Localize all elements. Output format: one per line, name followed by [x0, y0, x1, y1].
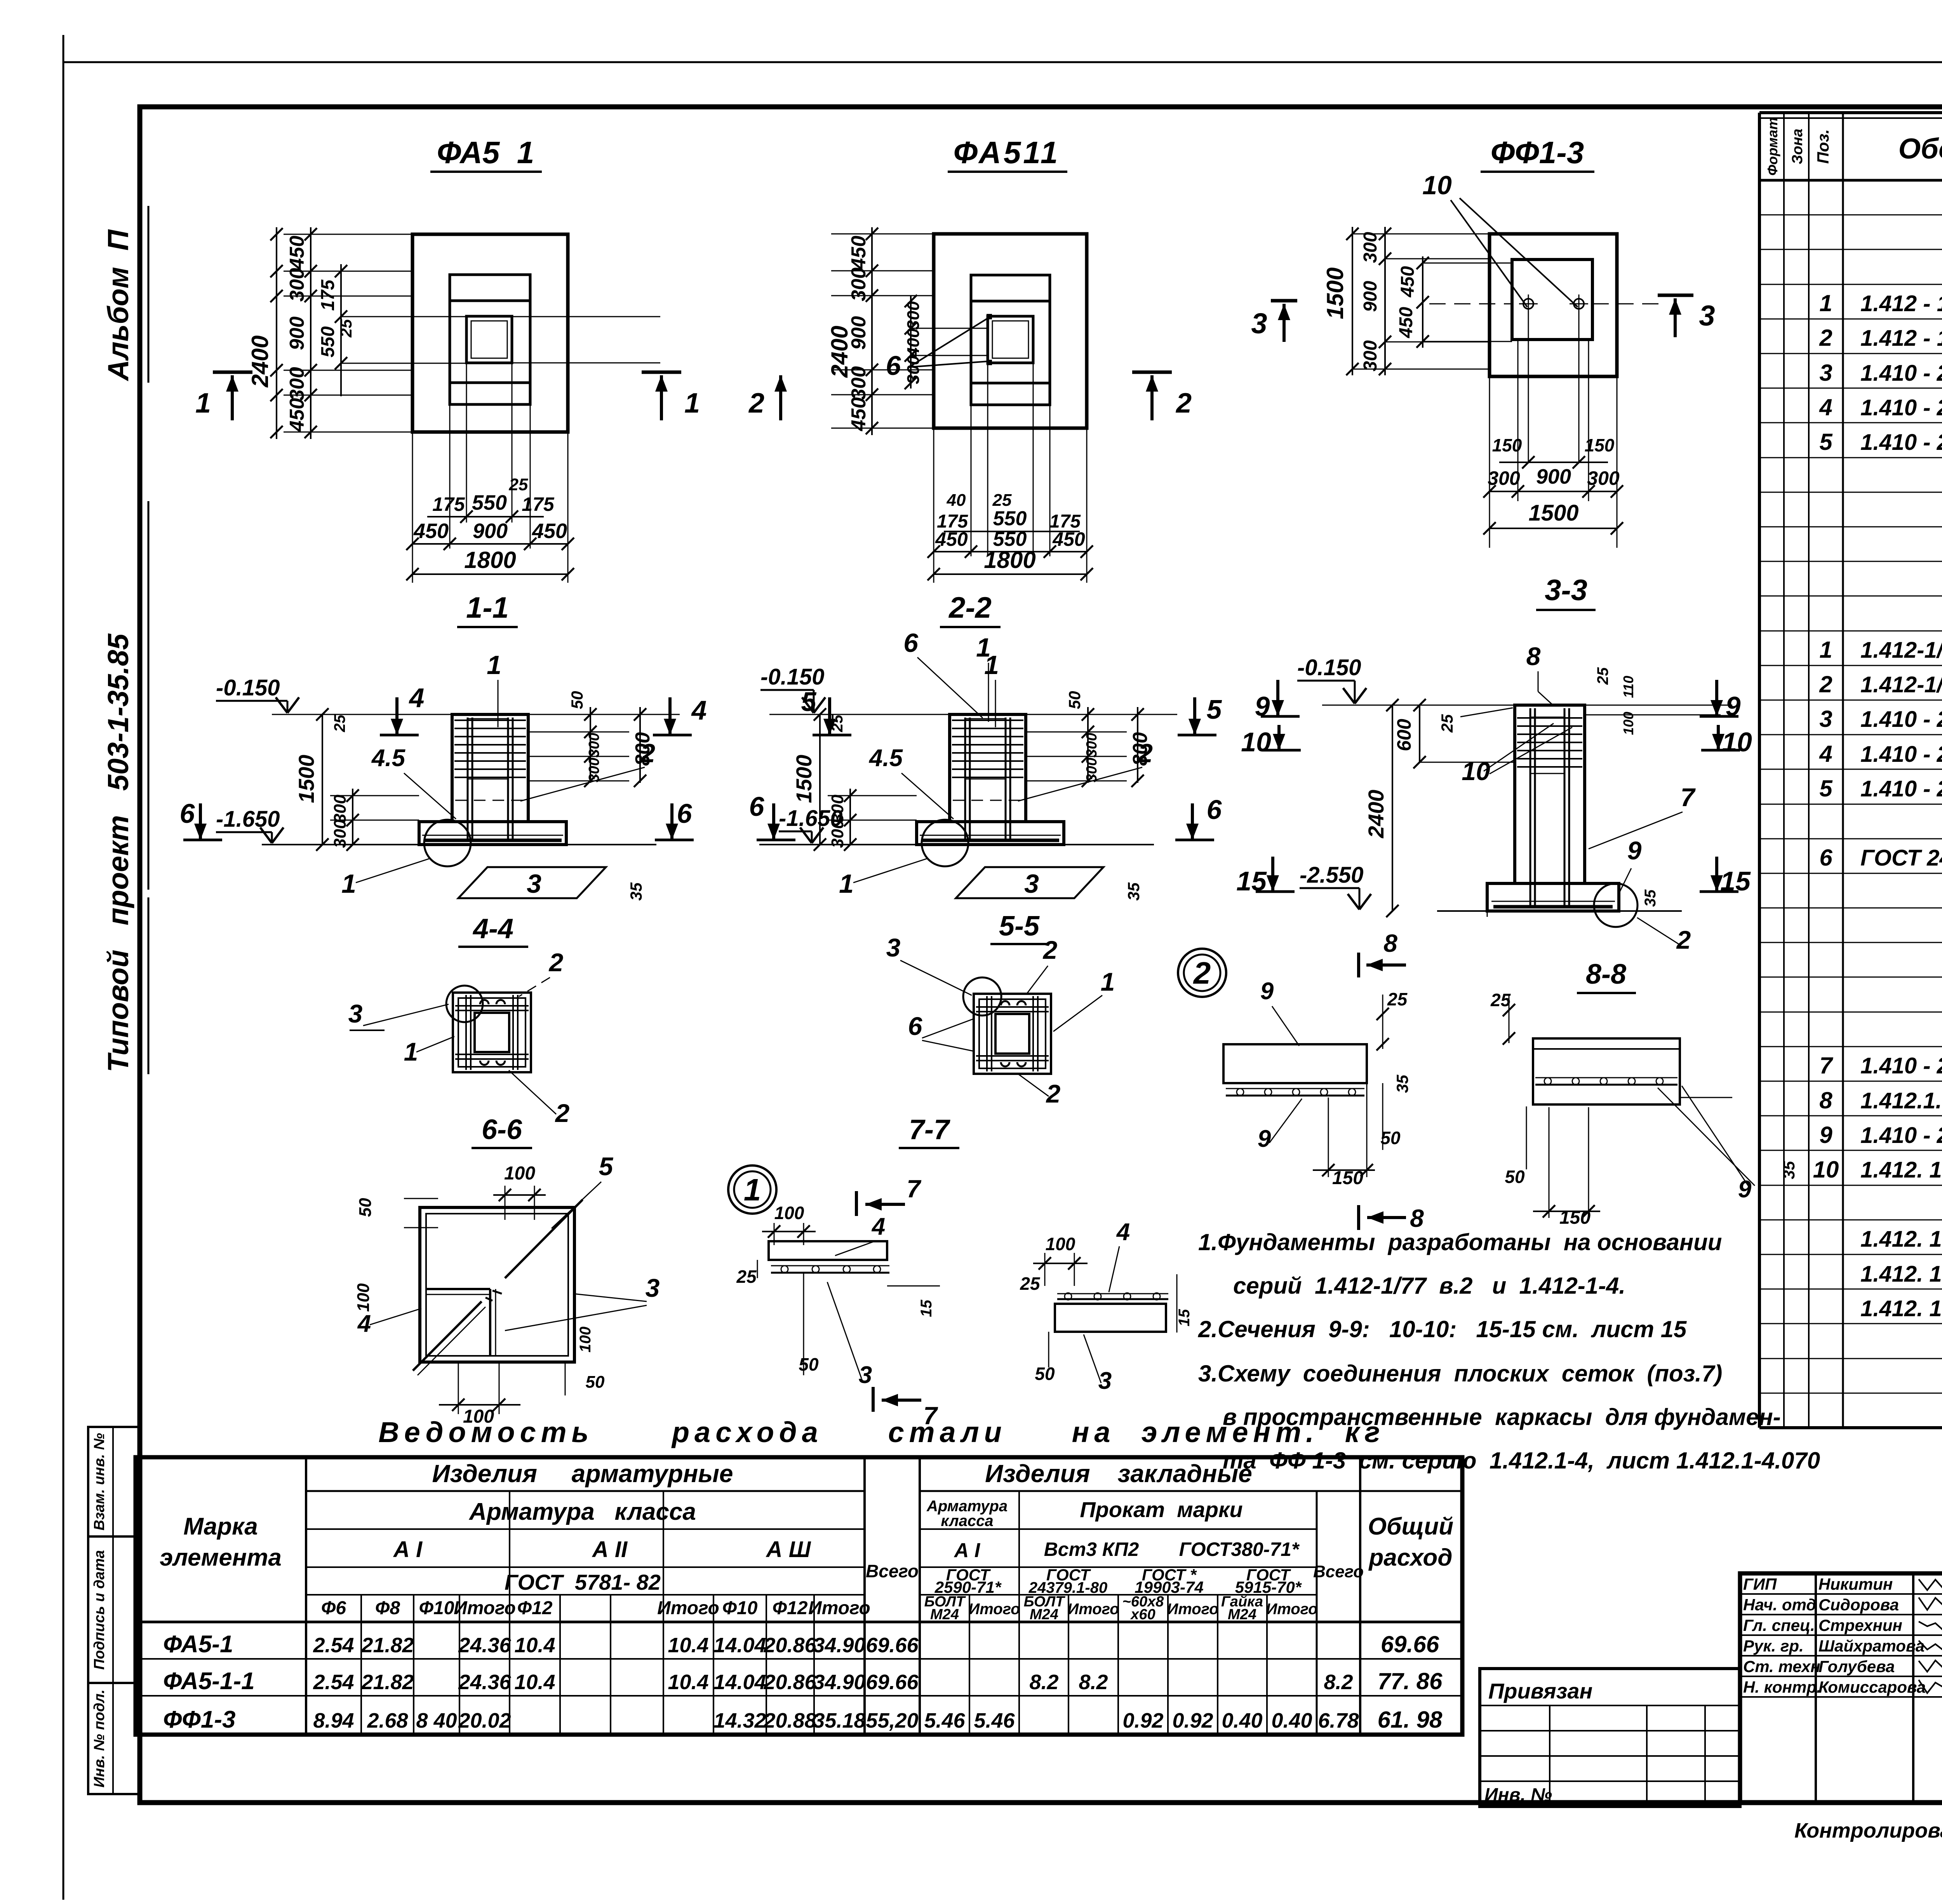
- svg-text:1500: 1500: [294, 755, 318, 803]
- svg-text:9: 9: [1258, 1125, 1271, 1152]
- svg-text:50: 50: [1380, 1128, 1401, 1148]
- svg-text:2: 2: [748, 388, 764, 419]
- svg-text:7: 7: [907, 1175, 922, 1203]
- svg-text:15: 15: [1720, 866, 1751, 896]
- svg-text:8: 8: [1819, 1087, 1832, 1113]
- svg-text:6-6: 6-6: [482, 1114, 522, 1145]
- svg-text:8: 8: [1410, 1204, 1424, 1232]
- svg-text:2400: 2400: [247, 335, 273, 387]
- svg-text:3: 3: [527, 869, 541, 899]
- svg-text:9: 9: [1819, 1122, 1832, 1148]
- svg-text:0.92: 0.92: [1122, 1709, 1163, 1732]
- svg-text:2: 2: [548, 948, 564, 977]
- svg-text:4-4: 4-4: [472, 913, 513, 944]
- svg-text:7: 7: [1681, 783, 1696, 812]
- svg-text:8: 8: [1383, 929, 1397, 957]
- svg-text:1.412. 1 - 4. 080: 1.412. 1 - 4. 080: [1860, 1226, 1942, 1252]
- svg-text:69.66: 69.66: [1381, 1631, 1439, 1657]
- svg-text:Гл. спец.: Гл. спец.: [1743, 1616, 1815, 1634]
- svg-text:50: 50: [1065, 691, 1084, 709]
- svg-text:Итого: Итого: [1167, 1601, 1218, 1618]
- svg-text:2400: 2400: [1364, 790, 1388, 839]
- svg-text:100: 100: [1620, 712, 1636, 735]
- svg-text:2.Сечения 9-9: 10-10: 15-: 2.Сечения 9-9: 10-10: 15-15 см. лист 15: [1198, 1316, 1687, 1342]
- svg-text:2.54: 2.54: [313, 1634, 354, 1657]
- svg-text:900: 900: [847, 316, 870, 350]
- svg-text:4: 4: [871, 1213, 885, 1240]
- svg-text:6.78: 6.78: [1318, 1709, 1359, 1732]
- svg-text:300: 300: [1084, 758, 1100, 782]
- svg-text:Итого: Итого: [657, 1598, 719, 1618]
- svg-text:1-1: 1-1: [466, 591, 509, 624]
- svg-text:Всего: Всего: [1313, 1562, 1364, 1581]
- svg-text:550: 550: [993, 507, 1027, 530]
- svg-text:0.40: 0.40: [1271, 1709, 1312, 1732]
- svg-text:Вст3 КП2: Вст3 КП2: [1044, 1538, 1139, 1560]
- svg-text:1: 1: [195, 388, 211, 419]
- svg-text:100: 100: [577, 1327, 594, 1353]
- svg-text:Изделия арматурные: Изделия арматурные: [432, 1460, 733, 1488]
- svg-text:Арматура класса: Арматура класса: [468, 1498, 696, 1525]
- svg-text:ГОСТ380-71*: ГОСТ380-71*: [1179, 1538, 1300, 1560]
- svg-text:20.86: 20.86: [763, 1634, 816, 1657]
- svg-text:8 40: 8 40: [416, 1709, 457, 1732]
- svg-text:3: 3: [886, 933, 901, 962]
- svg-text:8: 8: [1526, 642, 1541, 671]
- svg-text:35: 35: [1780, 1161, 1798, 1179]
- svg-text:М24: М24: [1030, 1606, 1058, 1623]
- svg-text:-0.150: -0.150: [1297, 655, 1361, 680]
- svg-text:25: 25: [509, 475, 528, 494]
- svg-text:1.410 - 2 вып.1 Л.62: 1.410 - 2 вып.1 Л.62: [1860, 742, 1942, 767]
- svg-text:35: 35: [1393, 1075, 1411, 1093]
- svg-text:2: 2: [640, 739, 655, 768]
- svg-text:9: 9: [1260, 978, 1274, 1005]
- svg-text:4: 4: [691, 695, 707, 725]
- svg-text:Поз.: Поз.: [1814, 129, 1832, 164]
- svg-text:50: 50: [799, 1354, 819, 1374]
- svg-text:1.412-1/77 вып.3 Л.5: 1.412-1/77 вып.3 Л.5: [1860, 638, 1942, 663]
- svg-text:300: 300: [1360, 340, 1381, 371]
- svg-text:4.5: 4.5: [371, 745, 406, 772]
- svg-text:450: 450: [847, 236, 870, 270]
- svg-text:300: 300: [847, 366, 870, 400]
- svg-text:600: 600: [1393, 719, 1415, 751]
- svg-text:10.4: 10.4: [668, 1671, 708, 1694]
- svg-text:1.412.1.- 4.050: 1.412.1.- 4.050: [1860, 1088, 1942, 1113]
- svg-text:150: 150: [1585, 435, 1615, 455]
- svg-text:10: 10: [1422, 171, 1452, 200]
- svg-text:1.412. 1 - 4. 060: 1.412. 1 - 4. 060: [1860, 1157, 1942, 1183]
- svg-text:25: 25: [1438, 714, 1456, 733]
- svg-text:7-7: 7-7: [909, 1114, 950, 1145]
- svg-text:175: 175: [318, 279, 338, 311]
- svg-text:2: 2: [1193, 956, 1211, 990]
- svg-text:серий 1.412-1/77 в.2 и 1.: серий 1.412-1/77 в.2 и 1.412-1-4.: [1233, 1273, 1625, 1299]
- svg-text:1: 1: [976, 633, 991, 662]
- svg-text:35: 35: [1642, 889, 1659, 907]
- svg-text:50: 50: [1505, 1167, 1525, 1187]
- svg-text:2: 2: [1819, 671, 1832, 697]
- svg-text:Ф10: Ф10: [722, 1598, 758, 1618]
- svg-text:1.410 - 2 вып.1 Л.4: 1.410 - 2 вып.1 Л.4: [1860, 707, 1942, 732]
- svg-text:1.410 - 2 вып.1 Л2: 1.410 - 2 вып.1 Л2: [1860, 430, 1942, 455]
- svg-text:450: 450: [935, 528, 968, 550]
- svg-text:9: 9: [1726, 691, 1741, 721]
- svg-text:14.04: 14.04: [713, 1634, 766, 1657]
- svg-text:3.Схему соединения плоских: 3.Схему соединения плоских сеток (поз.7): [1198, 1360, 1722, 1387]
- svg-text:300: 300: [286, 367, 308, 401]
- svg-text:100: 100: [354, 1283, 373, 1312]
- svg-text:М24: М24: [1228, 1606, 1256, 1623]
- svg-text:Итого: Итого: [808, 1598, 870, 1618]
- svg-text:Взам. инв. №: Взам. инв. №: [91, 1433, 108, 1531]
- svg-text:3: 3: [1819, 706, 1832, 732]
- svg-text:24.36: 24.36: [458, 1671, 511, 1694]
- svg-text:1.410 - 2 вып.1: 1.410 - 2 вып.1: [1860, 1123, 1942, 1148]
- svg-text:Ф10: Ф10: [419, 1598, 454, 1618]
- svg-text:2: 2: [1042, 935, 1058, 964]
- svg-text:300: 300: [331, 819, 350, 848]
- svg-text:50: 50: [356, 1198, 375, 1217]
- svg-text:25: 25: [992, 491, 1012, 510]
- svg-text:450: 450: [1052, 528, 1085, 550]
- svg-text:5: 5: [1819, 429, 1833, 455]
- svg-text:550: 550: [472, 491, 507, 514]
- svg-text:300: 300: [904, 301, 923, 330]
- svg-text:8.2: 8.2: [1079, 1671, 1108, 1694]
- svg-text:элемента: элемента: [160, 1544, 282, 1571]
- svg-text:1.412 - 1177 вып.3 Л19: 1.412 - 1177 вып.3 Л19: [1860, 326, 1942, 351]
- svg-text:34.90: 34.90: [813, 1671, 865, 1694]
- svg-text:10.4: 10.4: [514, 1671, 555, 1694]
- svg-text:1: 1: [487, 650, 501, 680]
- svg-text:450: 450: [413, 519, 449, 543]
- svg-text:Голубева: Голубева: [1818, 1657, 1895, 1676]
- svg-text:1500: 1500: [792, 755, 816, 803]
- svg-text:Рук. гр.: Рук. гр.: [1743, 1637, 1804, 1655]
- svg-text:10.4: 10.4: [514, 1634, 555, 1657]
- svg-text:14.32: 14.32: [713, 1709, 766, 1732]
- svg-text:1.410 - 2 вып.1 Л4: 1.410 - 2 вып.1 Л4: [1860, 361, 1942, 386]
- svg-text:Всего: Всего: [866, 1561, 919, 1581]
- svg-text:9: 9: [1627, 836, 1642, 865]
- svg-text:5: 5: [1819, 775, 1833, 801]
- svg-text:25: 25: [331, 714, 348, 732]
- svg-text:25: 25: [1594, 667, 1611, 685]
- svg-text:1.412. 1 - 4. 080 - 01: 1.412. 1 - 4. 080 - 01: [1860, 1261, 1942, 1287]
- svg-text:15: 15: [1176, 1309, 1193, 1326]
- svg-text:8-8: 8-8: [1586, 959, 1626, 990]
- svg-text:150: 150: [1559, 1207, 1590, 1228]
- svg-text:69.66: 69.66: [866, 1671, 919, 1694]
- svg-text:10: 10: [1241, 727, 1271, 757]
- svg-text:Ф12: Ф12: [773, 1598, 808, 1618]
- svg-text:300: 300: [828, 794, 847, 823]
- svg-text:5.46: 5.46: [974, 1709, 1015, 1732]
- svg-text:450: 450: [286, 398, 308, 432]
- svg-text:100: 100: [1046, 1234, 1075, 1254]
- svg-text:ФА511: ФА511: [954, 135, 1060, 170]
- svg-text:1.410 - 2 вып. 1: 1.410 - 2 вып. 1: [1860, 1053, 1942, 1078]
- svg-text:1.412. 1 - 4.080 - 02: 1.412. 1 - 4.080 - 02: [1860, 1296, 1942, 1321]
- svg-text:М24: М24: [930, 1606, 959, 1623]
- svg-text:900: 900: [1360, 281, 1381, 312]
- svg-text:300: 300: [286, 268, 308, 302]
- svg-text:А I: А I: [393, 1537, 423, 1562]
- svg-text:х60: х60: [1130, 1606, 1155, 1623]
- svg-text:6: 6: [1819, 845, 1832, 871]
- svg-text:77. 86: 77. 86: [1378, 1668, 1443, 1694]
- svg-text:900: 900: [286, 317, 308, 350]
- svg-text:3-3: 3-3: [1545, 574, 1587, 607]
- svg-text:6: 6: [886, 350, 901, 381]
- svg-text:Прокат марки: Прокат марки: [1080, 1497, 1242, 1522]
- svg-text:10.4: 10.4: [668, 1634, 708, 1657]
- svg-text:20.88: 20.88: [763, 1709, 816, 1732]
- svg-text:35.18: 35.18: [813, 1709, 865, 1732]
- svg-text:6: 6: [908, 1012, 923, 1040]
- svg-text:450: 450: [1396, 307, 1416, 338]
- svg-text:35: 35: [627, 882, 645, 901]
- svg-text:1: 1: [744, 1172, 761, 1207]
- svg-text:-2.550: -2.550: [1300, 862, 1363, 888]
- svg-text:6: 6: [677, 798, 693, 829]
- svg-text:2: 2: [1676, 925, 1691, 954]
- svg-text:450: 450: [286, 236, 308, 270]
- svg-text:5: 5: [599, 1152, 614, 1181]
- svg-text:расход: расход: [1368, 1544, 1452, 1571]
- svg-text:А II: А II: [592, 1537, 628, 1562]
- svg-text:100: 100: [774, 1203, 804, 1223]
- svg-text:5: 5: [1207, 694, 1222, 725]
- svg-text:Итого: Итого: [1067, 1601, 1119, 1618]
- svg-text:25: 25: [1490, 990, 1511, 1010]
- svg-text:7: 7: [1819, 1052, 1833, 1078]
- svg-text:4: 4: [357, 1310, 371, 1337]
- svg-text:Ф12: Ф12: [517, 1598, 553, 1618]
- svg-text:8.94: 8.94: [313, 1709, 354, 1732]
- svg-text:35: 35: [1124, 882, 1143, 901]
- svg-text:Стрехнин: Стрехнин: [1818, 1616, 1902, 1634]
- svg-text:8.2: 8.2: [1324, 1671, 1353, 1694]
- svg-text:1800: 1800: [464, 547, 516, 573]
- svg-text:50: 50: [568, 691, 586, 709]
- svg-text:Н. контр.: Н. контр.: [1743, 1678, 1821, 1696]
- svg-text:300: 300: [1084, 733, 1100, 757]
- svg-text:0.40: 0.40: [1222, 1709, 1262, 1732]
- svg-text:Зона: Зона: [1789, 129, 1806, 164]
- svg-text:4: 4: [1116, 1219, 1130, 1246]
- svg-text:ГИП: ГИП: [1743, 1575, 1777, 1593]
- svg-text:1: 1: [1819, 290, 1832, 316]
- svg-text:25: 25: [736, 1266, 757, 1287]
- svg-text:900: 900: [473, 519, 508, 543]
- svg-text:300: 300: [331, 794, 350, 823]
- svg-text:1.410 - 2 вып.1 Л.62: 1.410 - 2 вып.1 Л.62: [1860, 776, 1942, 801]
- svg-text:4: 4: [1819, 394, 1832, 420]
- svg-text:25: 25: [337, 319, 355, 338]
- svg-text:Изделия закладные: Изделия закладные: [985, 1460, 1252, 1488]
- svg-text:6: 6: [1207, 794, 1222, 825]
- svg-text:ФА5-1-1: ФА5-1-1: [163, 1668, 255, 1695]
- svg-text:110: 110: [1620, 676, 1636, 698]
- svg-text:Сидорова: Сидорова: [1818, 1596, 1899, 1614]
- svg-text:ФА5 1: ФА5 1: [437, 135, 534, 170]
- svg-text:Формат: Формат: [1765, 117, 1780, 176]
- svg-text:Никитин: Никитин: [1818, 1575, 1893, 1593]
- svg-text:1.412-1/77 вып.3 Л.19: 1.412-1/77 вып.3 Л.19: [1860, 672, 1942, 697]
- svg-text:300: 300: [904, 355, 923, 384]
- svg-text:Итого: Итого: [1266, 1601, 1317, 1618]
- svg-text:34.90: 34.90: [813, 1634, 865, 1657]
- svg-text:55,20: 55,20: [866, 1709, 918, 1732]
- svg-text:2.54: 2.54: [313, 1671, 354, 1694]
- svg-text:Комиссарова: Комиссарова: [1818, 1678, 1926, 1696]
- svg-text:5-5: 5-5: [999, 911, 1040, 942]
- svg-text:Марка: Марка: [183, 1513, 258, 1540]
- svg-text:6: 6: [903, 628, 919, 658]
- svg-text:1: 1: [839, 869, 854, 899]
- svg-text:3: 3: [1699, 300, 1715, 332]
- svg-text:3: 3: [1251, 307, 1267, 340]
- svg-text:300: 300: [586, 758, 602, 782]
- svg-text:61. 98: 61. 98: [1378, 1707, 1443, 1733]
- svg-text:3: 3: [348, 999, 363, 1028]
- svg-text:150: 150: [1492, 435, 1522, 455]
- svg-text:4.5: 4.5: [868, 745, 903, 772]
- svg-text:1: 1: [1101, 967, 1115, 996]
- svg-text:50: 50: [1035, 1364, 1055, 1384]
- svg-text:та ФФ 1-3 см. серию 1.412.1: та ФФ 1-3 см. серию 1.412.1-4, лист 1.41…: [1223, 1448, 1820, 1474]
- svg-text:550: 550: [318, 326, 338, 357]
- svg-text:0.92: 0.92: [1172, 1709, 1213, 1732]
- svg-text:Инв. №: Инв. №: [1484, 1785, 1552, 1805]
- svg-text:-0.150: -0.150: [216, 675, 280, 700]
- svg-text:Ведомость расхода ста: Ведомость расхода стали на элемент. кг: [378, 1416, 1385, 1448]
- svg-text:Привязан: Привязан: [1488, 1679, 1592, 1703]
- svg-text:450: 450: [532, 519, 567, 543]
- svg-text:2: 2: [1819, 325, 1832, 351]
- svg-text:Обозначение: Обозначение: [1898, 132, 1942, 165]
- svg-text:10: 10: [1722, 727, 1752, 757]
- svg-text:Нач. отд: Нач. отд: [1743, 1596, 1816, 1614]
- svg-text:4: 4: [1819, 741, 1832, 767]
- svg-text:15: 15: [918, 1300, 935, 1317]
- svg-text:50: 50: [586, 1373, 605, 1392]
- svg-text:Итого: Итого: [968, 1601, 1020, 1618]
- svg-text:3: 3: [646, 1273, 660, 1302]
- svg-text:8.2: 8.2: [1029, 1671, 1058, 1694]
- svg-text:9: 9: [1255, 691, 1270, 721]
- svg-text:10: 10: [1462, 757, 1490, 786]
- svg-text:3: 3: [1024, 869, 1039, 899]
- svg-text:300: 300: [1587, 467, 1620, 489]
- svg-text:А Ш: А Ш: [766, 1537, 811, 1562]
- svg-text:1: 1: [404, 1037, 418, 1066]
- svg-text:300: 300: [847, 268, 870, 301]
- svg-text:20.02: 20.02: [458, 1709, 511, 1732]
- svg-text:20.86: 20.86: [763, 1671, 816, 1694]
- svg-text:Итого: Итого: [454, 1598, 516, 1618]
- svg-text:ФФ1-3: ФФ1-3: [1491, 135, 1584, 170]
- svg-text:ГОСТ 5781- 82: ГОСТ 5781- 82: [505, 1570, 661, 1594]
- svg-text:21.82: 21.82: [361, 1671, 414, 1694]
- svg-text:300: 300: [586, 733, 602, 757]
- svg-text:450: 450: [847, 397, 870, 432]
- svg-text:3: 3: [1819, 360, 1832, 386]
- svg-text:ГОСТ 24379.1- 80: ГОСТ 24379.1- 80: [1860, 845, 1942, 871]
- svg-text:ФФ1-3: ФФ1-3: [163, 1706, 235, 1733]
- svg-text:2: 2: [1046, 1079, 1061, 1108]
- svg-text:175: 175: [522, 493, 555, 515]
- svg-text:100: 100: [504, 1163, 535, 1184]
- svg-text:5: 5: [801, 686, 817, 717]
- svg-text:Общий: Общий: [1368, 1513, 1453, 1540]
- svg-text:24.36: 24.36: [458, 1634, 511, 1657]
- svg-text:5.46: 5.46: [924, 1709, 965, 1732]
- svg-text:1.410 - 2 вып.1 Л62: 1.410 - 2 вып.1 Л62: [1860, 395, 1942, 420]
- svg-text:300: 300: [828, 819, 847, 848]
- svg-text:14.04: 14.04: [713, 1671, 766, 1694]
- svg-text:Ст. техн: Ст. техн: [1743, 1657, 1820, 1676]
- svg-text:69.66: 69.66: [866, 1634, 919, 1657]
- svg-text:Контролировал: Сумтеева: Контролировал: Сумтеева: [1794, 1819, 1942, 1842]
- svg-text:2.68: 2.68: [367, 1709, 408, 1732]
- svg-text:450: 450: [1397, 266, 1418, 298]
- svg-text:1.Фундаменты разработаны на: 1.Фундаменты разработаны на основании: [1198, 1229, 1722, 1255]
- svg-text:175: 175: [432, 493, 465, 515]
- svg-text:400: 400: [904, 328, 923, 357]
- svg-text:Ф6: Ф6: [321, 1598, 346, 1618]
- svg-text:ФА5-1: ФА5-1: [163, 1631, 233, 1658]
- svg-text:1.412 - 1/77 вып.3. Л5: 1.412 - 1/77 вып.3. Л5: [1860, 291, 1942, 316]
- svg-text:6: 6: [749, 791, 765, 822]
- svg-text:4: 4: [409, 683, 425, 713]
- svg-text:класса: класса: [941, 1512, 993, 1529]
- svg-text:1: 1: [684, 388, 700, 419]
- svg-text:1800: 1800: [984, 547, 1035, 573]
- svg-text:Альбом П: Альбом П: [102, 229, 134, 381]
- svg-text:2-2: 2-2: [948, 591, 992, 624]
- svg-text:-1.650: -1.650: [216, 807, 280, 832]
- svg-text:1500: 1500: [1322, 267, 1348, 319]
- svg-text:Типовой проект 503-1-35.85: Типовой проект 503-1-35.85: [102, 633, 134, 1072]
- svg-text:Подпись и дата: Подпись и дата: [91, 1550, 108, 1670]
- svg-text:2: 2: [1175, 388, 1192, 419]
- svg-text:-0.150: -0.150: [760, 664, 824, 690]
- svg-text:1: 1: [341, 869, 356, 899]
- svg-text:Шайхратова: Шайхратова: [1818, 1637, 1925, 1655]
- svg-text:40: 40: [947, 491, 966, 510]
- svg-text:1: 1: [1819, 637, 1832, 663]
- svg-text:900: 900: [1536, 465, 1571, 488]
- svg-text:2: 2: [555, 1099, 570, 1127]
- svg-text:25: 25: [1387, 989, 1408, 1009]
- svg-text:300: 300: [1360, 232, 1381, 263]
- svg-text:10: 10: [1813, 1157, 1839, 1183]
- svg-text:Ф8: Ф8: [375, 1598, 400, 1618]
- svg-text:15: 15: [1236, 866, 1267, 896]
- svg-text:2: 2: [1137, 739, 1153, 768]
- svg-text:Инв. № подл.: Инв. № подл.: [91, 1690, 108, 1788]
- svg-text:21.82: 21.82: [361, 1634, 414, 1657]
- svg-text:300: 300: [1488, 467, 1520, 489]
- svg-text:1500: 1500: [1528, 500, 1578, 526]
- svg-text:6: 6: [180, 798, 195, 829]
- svg-text:25: 25: [1020, 1273, 1041, 1294]
- svg-text:А I: А I: [954, 1539, 981, 1562]
